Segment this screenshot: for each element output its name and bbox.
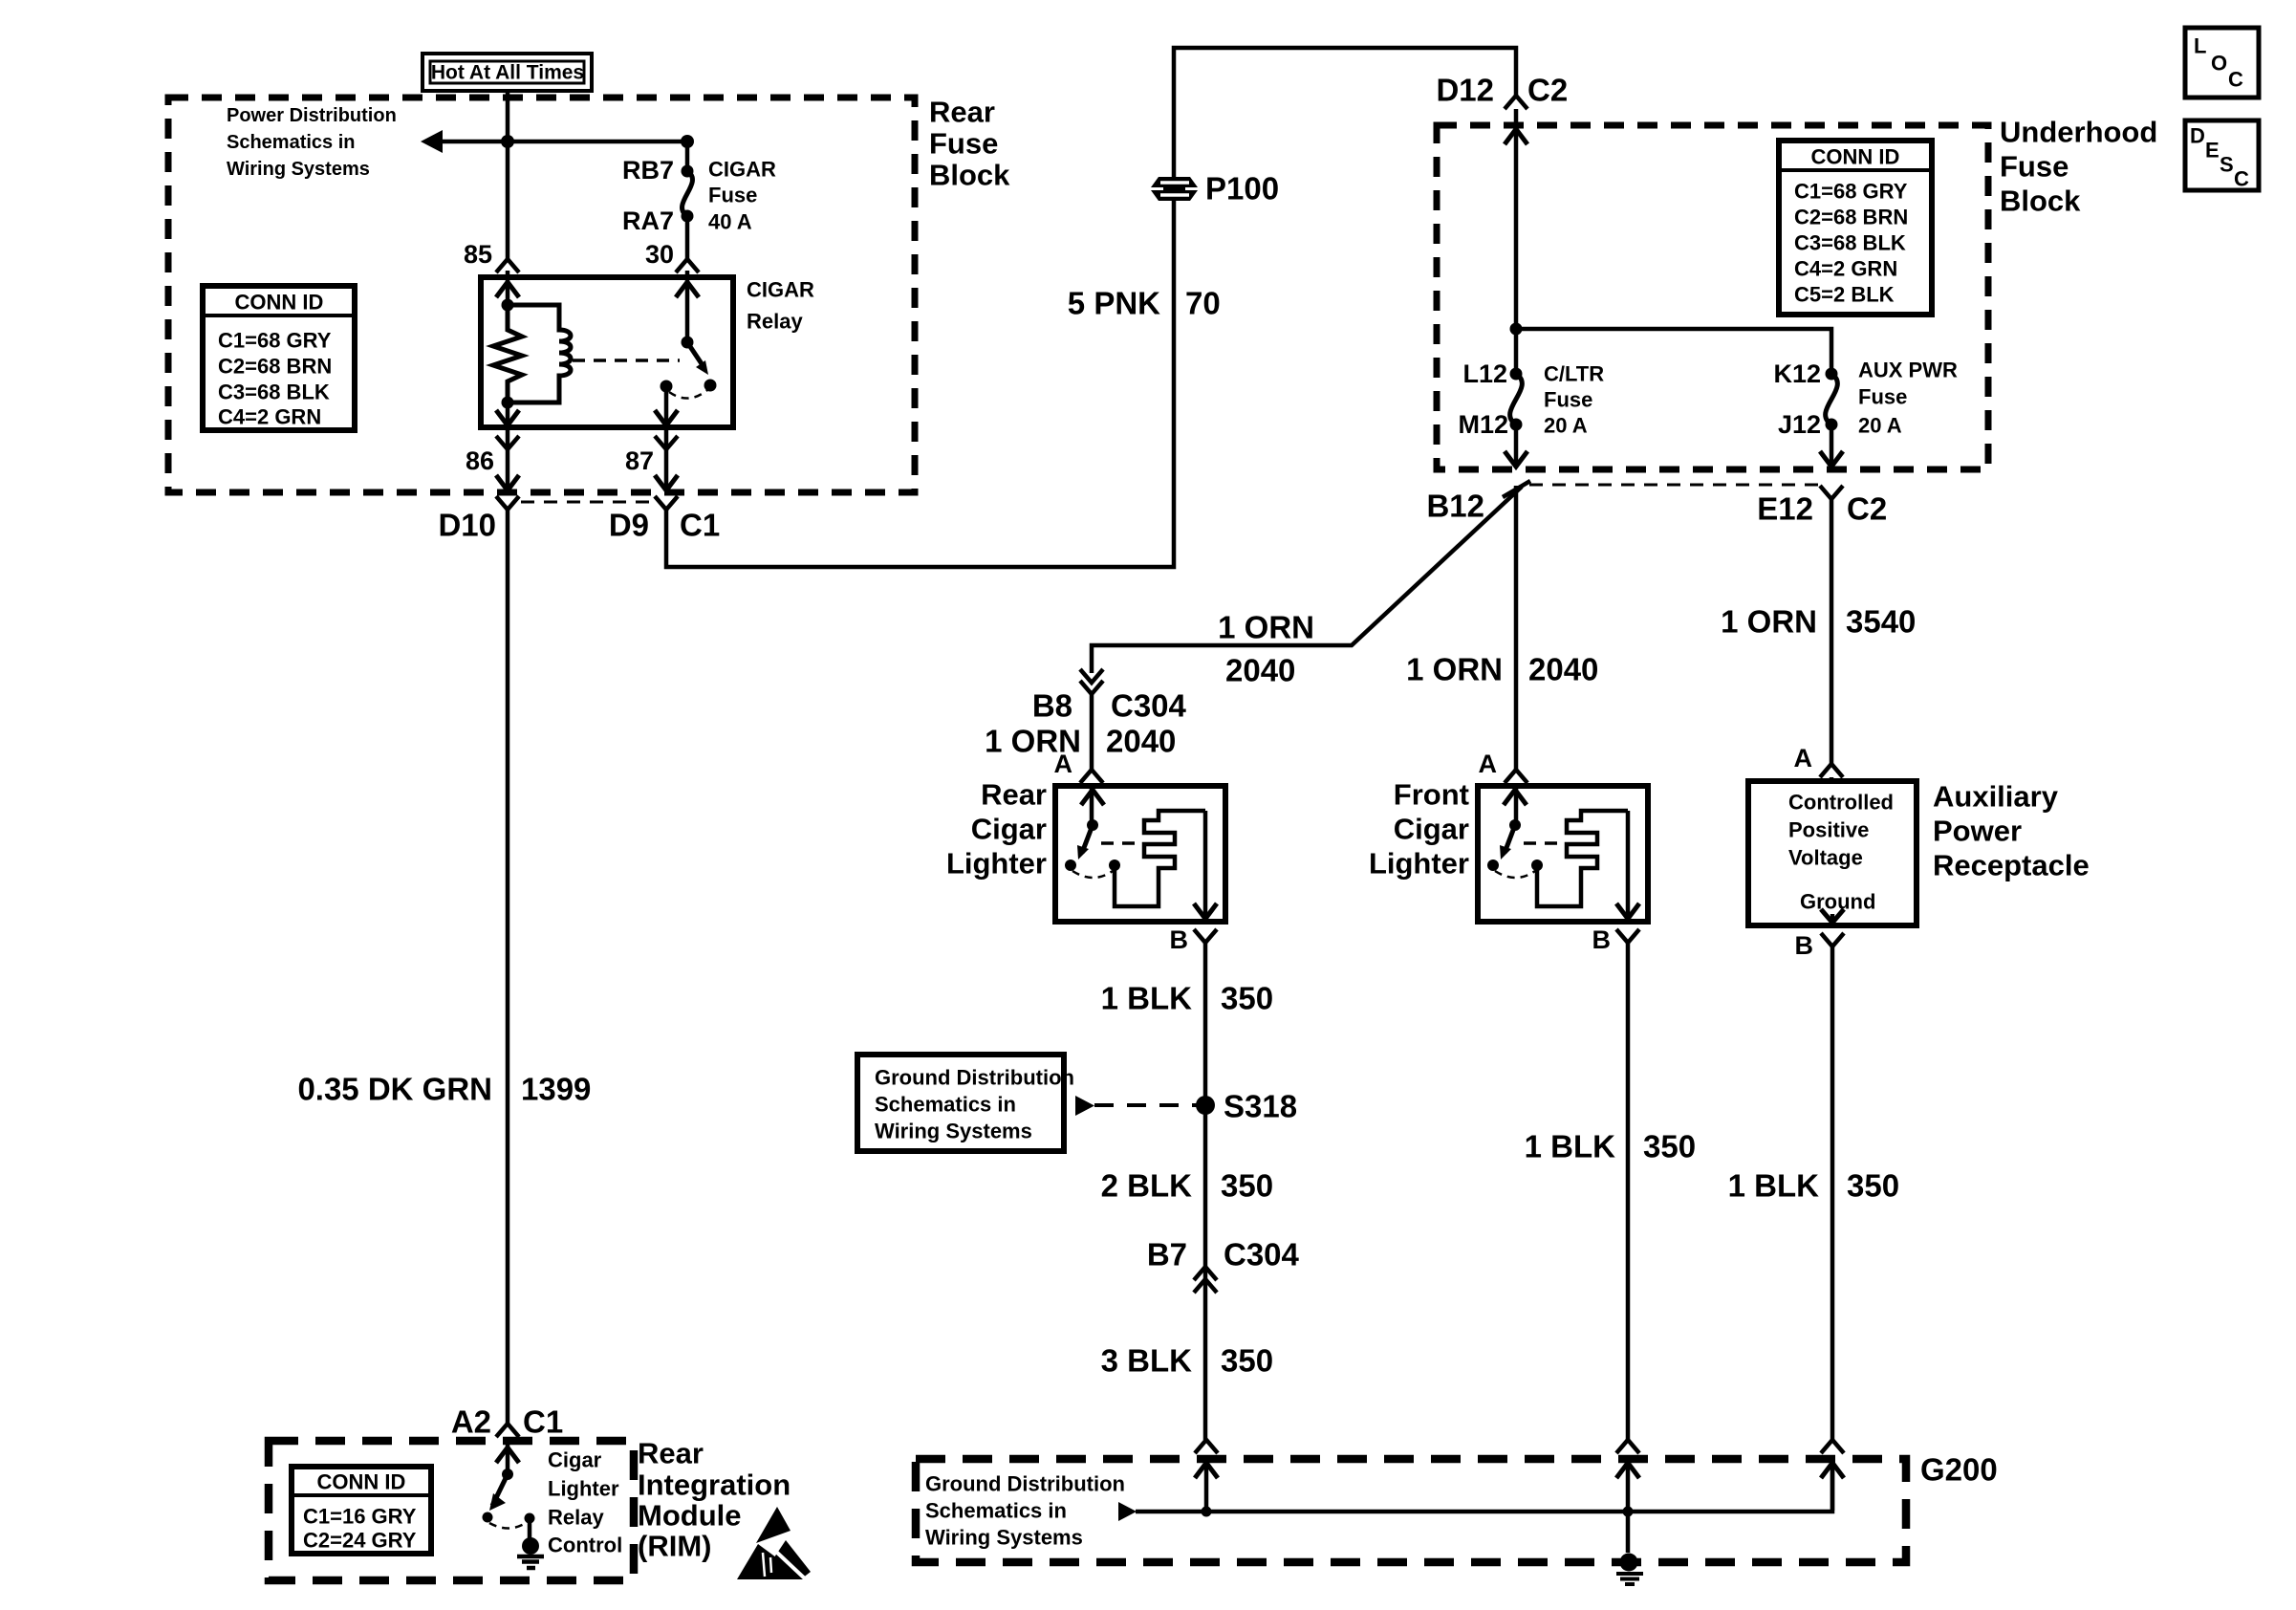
svg-text:K12: K12 <box>1773 359 1821 388</box>
svg-text:Schematics in: Schematics in <box>925 1499 1067 1523</box>
fuse AUX PWR 20A element <box>1826 374 1838 424</box>
svg-text:Ground: Ground <box>1800 890 1875 914</box>
svg-text:D12: D12 <box>1436 73 1494 108</box>
dashed link to S318 <box>1094 1103 1197 1107</box>
wire fuse feed <box>685 141 690 171</box>
arrowhead front element down <box>1616 903 1639 919</box>
svg-text:P100: P100 <box>1205 171 1279 207</box>
ground hatch G200 <box>1616 1572 1643 1576</box>
svg-text:C1=68 GRY: C1=68 GRY <box>218 329 332 353</box>
actuator dashed link rear <box>1101 841 1141 845</box>
svg-text:CIGAR: CIGAR <box>747 278 814 302</box>
wire B12 diagonal to rear feed <box>1092 487 1522 673</box>
arrowhead rear lighter feed up <box>1081 790 1104 805</box>
pointer triangle S318 <box>1075 1096 1094 1116</box>
svg-text:A: A <box>1479 750 1498 778</box>
svg-text:Relay: Relay <box>747 310 803 334</box>
node junction hot/branch <box>501 135 514 148</box>
node fuse feed corner <box>681 135 694 148</box>
svg-text:Module: Module <box>638 1499 742 1533</box>
wire split to K12 <box>1516 329 1831 374</box>
wire M12 to border <box>1514 424 1519 467</box>
arrowhead aux ground down <box>1821 909 1844 923</box>
relay actuator dashed link <box>573 359 680 362</box>
arrowhead M12 down <box>1505 451 1527 467</box>
resistor relay <box>493 305 522 402</box>
svg-text:C5=2 BLK: C5=2 BLK <box>1794 283 1895 307</box>
svg-text:3540: 3540 <box>1846 604 1916 640</box>
wire E12 to aux receptacle <box>1830 499 1834 764</box>
ground ball G200 <box>1620 1554 1638 1572</box>
svg-text:2040: 2040 <box>1225 653 1295 688</box>
wire pin30 into relay <box>685 271 690 342</box>
connector chevron D9 <box>655 496 678 510</box>
svg-text:E12: E12 <box>1757 491 1813 527</box>
svg-text:Hot At All Times: Hot At All Times <box>431 62 584 84</box>
rear cigar lighter box <box>1055 786 1225 922</box>
svg-text:C4=2 GRN: C4=2 GRN <box>1794 257 1897 281</box>
connector chevron 86 <box>496 436 519 449</box>
wire D10 long run down <box>506 510 510 1424</box>
svg-text:Fuse: Fuse <box>1858 385 1907 409</box>
svg-text:CONN ID: CONN ID <box>235 291 324 315</box>
connector chevron rear at G200 <box>1195 1440 1218 1453</box>
coil relay winding <box>508 305 571 402</box>
node J12 <box>1826 419 1838 431</box>
svg-text:2040: 2040 <box>1106 724 1176 759</box>
node front lighter stationary <box>1487 859 1499 871</box>
svg-text:L12: L12 <box>1462 359 1507 388</box>
svg-text:2 BLK: 2 BLK <box>1101 1168 1193 1204</box>
svg-text:C1: C1 <box>523 1404 563 1440</box>
arrowhead rim feed up <box>496 1447 519 1463</box>
svg-text:Ground Distribution: Ground Distribution <box>875 1066 1074 1090</box>
svg-text:B8: B8 <box>1032 688 1072 724</box>
wire fuse to pin30 <box>685 216 690 259</box>
connector C1 dashed face line <box>521 501 653 504</box>
connector chevron B front <box>1616 929 1639 943</box>
svg-text:350: 350 <box>1221 1343 1273 1379</box>
fuse CIGAR 40A element <box>682 171 693 216</box>
switch arm arrowhead rim <box>489 1493 506 1511</box>
svg-text:1 ORN: 1 ORN <box>1721 604 1817 640</box>
svg-text:C: C <box>2228 68 2243 92</box>
connector chevron front at G200 <box>1616 1440 1639 1453</box>
svg-text:Lighter: Lighter <box>548 1477 619 1501</box>
node M12 <box>1510 419 1523 431</box>
node front lighter element in <box>1531 859 1543 871</box>
wire A into aux box <box>1830 777 1834 784</box>
svg-text:1 BLK: 1 BLK <box>1101 981 1193 1016</box>
svg-text:S318: S318 <box>1224 1089 1297 1124</box>
wire A2 into rim <box>506 1437 510 1474</box>
CONN ID table rim <box>292 1467 431 1554</box>
DESC legend box <box>2185 120 2259 191</box>
node rim switch pivot <box>502 1469 513 1480</box>
node feed split <box>1510 323 1523 336</box>
svg-text:350: 350 <box>1221 1168 1273 1204</box>
connector chevron 87 <box>655 436 678 449</box>
arrowhead switch feed up <box>676 282 699 297</box>
node moving contact <box>704 380 717 392</box>
connector C304 double chevron down <box>1080 669 1103 683</box>
svg-text:A: A <box>1794 744 1813 772</box>
svg-text:L: L <box>2194 34 2206 58</box>
svg-text:Fuse: Fuse <box>708 184 757 207</box>
rear fuse block dashed enclosure <box>168 98 915 492</box>
front cigar lighter box <box>1478 786 1648 922</box>
svg-text:20 A: 20 A <box>1858 414 1902 438</box>
svg-text:85: 85 <box>464 240 492 269</box>
arrowhead front G200 up <box>1616 1463 1639 1478</box>
svg-text:S: S <box>2220 153 2234 177</box>
svg-text:1 BLK: 1 BLK <box>1728 1168 1820 1204</box>
node rear lighter element in <box>1109 859 1120 871</box>
arrowhead aux G200 up <box>1821 1463 1844 1478</box>
svg-text:C2: C2 <box>1847 491 1887 527</box>
wire aux B down <box>1830 946 1835 1440</box>
svg-text:C2: C2 <box>1527 73 1568 108</box>
svg-text:Fuse: Fuse <box>1544 388 1592 412</box>
svg-text:350: 350 <box>1847 1168 1899 1204</box>
node stationary contact 87 <box>661 381 673 393</box>
arrowhead coil feed up <box>496 282 519 297</box>
ground distribution callout box <box>857 1055 1064 1151</box>
svg-text:B12: B12 <box>1426 489 1484 524</box>
node front lighter pivot <box>1509 819 1521 831</box>
node rear lighter pivot <box>1087 819 1098 831</box>
svg-text:Ground Distribution: Ground Distribution <box>925 1472 1125 1496</box>
arrowhead 87 down <box>655 410 678 425</box>
svg-text:G200: G200 <box>1920 1452 1998 1488</box>
svg-text:C2=68 BRN: C2=68 BRN <box>218 355 332 379</box>
actuator dashed link front <box>1524 841 1564 845</box>
arrowhead front lighter feed up <box>1504 790 1527 805</box>
connector chevron A front lighter <box>1505 770 1527 783</box>
wire A into rear lighter <box>1090 783 1094 825</box>
wire 87 down <box>664 386 669 424</box>
svg-text:E: E <box>2205 139 2220 163</box>
wire coil to pin86 <box>506 402 510 424</box>
svg-text:86: 86 <box>466 446 494 475</box>
wire rear lighter B down <box>1203 943 1208 1440</box>
svg-text:RB7: RB7 <box>622 156 674 185</box>
wire B8 to rear lighter <box>1090 694 1094 770</box>
node coil bottom <box>502 397 514 409</box>
ground hatch rim <box>517 1555 544 1559</box>
svg-text:C2=68 BRN: C2=68 BRN <box>1794 206 1908 229</box>
wire pin85 into relay <box>506 271 510 305</box>
switch arm arrowhead front <box>1500 845 1511 859</box>
svg-text:C1=68 GRY: C1=68 GRY <box>1794 180 1908 204</box>
connector chevron A2/C1 <box>496 1424 519 1437</box>
wire contact to ground ball <box>528 1518 532 1539</box>
CONN ID table underhood <box>1779 141 1932 315</box>
svg-text:Power: Power <box>1933 815 2022 848</box>
svg-text:1 ORN: 1 ORN <box>1406 652 1503 687</box>
connector chevron aux at G200 <box>1821 1440 1844 1453</box>
switch throw dashed arc <box>669 390 707 399</box>
wire 1 ORN front feed <box>1514 486 1519 770</box>
svg-text:Schematics in: Schematics in <box>875 1093 1016 1117</box>
svg-text:CONN ID: CONN ID <box>1811 145 1900 169</box>
pointer triangle G200 <box>1118 1502 1137 1521</box>
wire hot feed vertical 85 <box>506 91 510 259</box>
svg-text:A2: A2 <box>451 1404 491 1440</box>
connector chevron A rear lighter <box>1080 770 1103 783</box>
svg-text:Wiring Systems: Wiring Systems <box>925 1526 1083 1550</box>
svg-text:Fuse: Fuse <box>929 127 998 161</box>
ground ball rim <box>522 1537 539 1555</box>
svg-text:C4=2 GRN: C4=2 GRN <box>218 405 321 429</box>
switch arm front lighter <box>1505 825 1515 853</box>
svg-text:30: 30 <box>645 240 674 269</box>
svg-text:AUX PWR: AUX PWR <box>1858 359 1958 382</box>
connector chevron A aux <box>1820 764 1843 777</box>
wire aux into bus <box>1830 1463 1835 1511</box>
svg-text:Control: Control <box>548 1534 622 1557</box>
arrowhead rear G200 up <box>1195 1463 1218 1478</box>
svg-text:Front: Front <box>1394 778 1469 812</box>
svg-text:Power Distribution: Power Distribution <box>227 105 397 126</box>
svg-text:D10: D10 <box>438 508 496 543</box>
connector chevron pin 30 <box>676 259 699 272</box>
connector C2 dashed face line bottom <box>1529 484 1820 487</box>
svg-text:B: B <box>1592 925 1612 954</box>
wire A into front lighter <box>1514 783 1519 825</box>
wire front into bus <box>1626 1463 1631 1511</box>
svg-text:70: 70 <box>1185 286 1221 321</box>
heating element front <box>1537 811 1628 906</box>
wire 87 below relay <box>664 427 669 490</box>
switch arm relay <box>687 342 703 365</box>
wire front lighter B down <box>1626 943 1631 1440</box>
node RB7 <box>682 165 694 178</box>
svg-text:2040: 2040 <box>1528 652 1598 687</box>
switch arm rear lighter <box>1082 825 1093 853</box>
svg-text:Block: Block <box>2000 185 2081 218</box>
svg-text:O: O <box>2211 52 2227 76</box>
svg-text:B: B <box>1795 931 1814 960</box>
arrow to power distribution <box>421 130 443 153</box>
svg-text:1399: 1399 <box>521 1072 591 1107</box>
switch arm arrowhead rear <box>1077 845 1089 859</box>
svg-text:(RIM): (RIM) <box>638 1530 711 1563</box>
arrowhead J12 down <box>1820 451 1843 467</box>
relay CIGAR box <box>481 277 733 427</box>
connector chevron B rear <box>1194 929 1217 943</box>
svg-text:A: A <box>1054 750 1073 778</box>
svg-text:Cigar: Cigar <box>971 813 1047 846</box>
node rim relay drive contact <box>525 1513 535 1524</box>
node rear lighter stationary <box>1065 859 1076 871</box>
svg-text:B7: B7 <box>1147 1237 1187 1273</box>
svg-text:D9: D9 <box>609 508 649 543</box>
node K12 <box>1826 368 1838 381</box>
svg-text:D: D <box>2190 124 2205 148</box>
svg-text:Rear: Rear <box>929 96 995 129</box>
svg-text:5 PNK: 5 PNK <box>1068 286 1160 321</box>
svg-text:Rear: Rear <box>981 778 1047 812</box>
arrowhead coil out down <box>496 410 519 425</box>
ground bus wire <box>1136 1463 1832 1512</box>
arrowhead D12 feed up <box>1505 129 1527 144</box>
wire rear element out <box>1203 811 1208 919</box>
svg-text:Relay: Relay <box>548 1506 604 1530</box>
CONN ID table rear fuse block <box>203 286 355 430</box>
wire D12 into block <box>1514 109 1519 374</box>
svg-text:40 A: 40 A <box>708 210 752 234</box>
svg-text:Cigar: Cigar <box>1394 813 1469 846</box>
svg-text:Rear: Rear <box>638 1437 704 1470</box>
node L12 <box>1510 368 1523 381</box>
connector chevron D10 <box>496 496 519 510</box>
svg-text:Integration: Integration <box>638 1469 791 1502</box>
svg-text:C3=68 BLK: C3=68 BLK <box>1794 231 1906 255</box>
svg-text:1 BLK: 1 BLK <box>1525 1129 1616 1164</box>
connector chevron B12 slanted <box>1503 481 1530 497</box>
node bus rear <box>1202 1507 1212 1517</box>
wire rear into bus <box>1204 1463 1209 1511</box>
switch arm rim <box>492 1474 508 1506</box>
splice S318 <box>1196 1096 1215 1115</box>
underhood fuse block dashed enclosure <box>1437 125 1988 469</box>
svg-text:Lighter: Lighter <box>946 847 1047 881</box>
LOC legend box <box>2185 28 2259 98</box>
svg-text:Controlled: Controlled <box>1788 791 1894 815</box>
svg-text:CIGAR: CIGAR <box>708 158 776 182</box>
switch arm arrowhead <box>696 360 708 375</box>
switch throw dashed arc rear <box>1072 871 1113 878</box>
node coil top <box>502 299 514 312</box>
svg-text:Schematics in: Schematics in <box>227 132 356 153</box>
svg-text:Receptacle: Receptacle <box>1933 849 2090 882</box>
wire front to ground ball <box>1626 1512 1631 1553</box>
svg-text:C2=24 GRY: C2=24 GRY <box>303 1529 417 1553</box>
grommet P100 <box>1151 177 1198 201</box>
svg-text:Voltage: Voltage <box>1788 846 1863 870</box>
connector chevron E12/C2 <box>1820 486 1843 499</box>
connector C304 double chevron up <box>1194 1267 1217 1280</box>
switch throw dashed arc rim <box>489 1523 526 1529</box>
node RA7 <box>682 210 694 223</box>
arrowhead rear element down <box>1194 903 1217 919</box>
svg-text:C: C <box>2234 167 2249 191</box>
svg-text:Wiring Systems: Wiring Systems <box>227 159 370 180</box>
Hot At All Times box <box>422 54 592 91</box>
svg-text:Wiring Systems: Wiring Systems <box>875 1120 1032 1143</box>
svg-text:Fuse: Fuse <box>2000 150 2069 184</box>
svg-text:C3=68 BLK: C3=68 BLK <box>218 381 330 404</box>
connector chevron D12/C2 <box>1505 96 1527 109</box>
svg-text:Lighter: Lighter <box>1369 847 1469 881</box>
svg-text:3 BLK: 3 BLK <box>1101 1343 1193 1379</box>
wire aux ground out <box>1830 914 1835 923</box>
svg-text:C1: C1 <box>680 508 720 543</box>
node rim stationary contact <box>483 1512 493 1523</box>
svg-text:C1=16 GRY: C1=16 GRY <box>303 1505 417 1529</box>
svg-text:CONN ID: CONN ID <box>317 1470 406 1494</box>
svg-text:Positive: Positive <box>1788 818 1869 842</box>
node bus front <box>1623 1507 1634 1517</box>
svg-text:0.35 DK GRN: 0.35 DK GRN <box>297 1072 492 1107</box>
connector chevron pin 85 <box>496 259 519 272</box>
fuse C/LTR 20A element <box>1510 374 1523 424</box>
wire branch horizontal to power distribution <box>441 140 687 144</box>
rim dashed enclosure <box>269 1441 634 1580</box>
svg-text:M12: M12 <box>1458 410 1508 439</box>
svg-text:350: 350 <box>1643 1129 1696 1164</box>
ESD sensitive symbol <box>756 1507 791 1543</box>
switch throw dashed arc front <box>1495 871 1535 878</box>
svg-text:87: 87 <box>625 446 654 475</box>
arrowhead 87 at border <box>655 475 678 490</box>
svg-text:C/LTR: C/LTR <box>1544 362 1604 386</box>
wire D9 to P100 run <box>666 48 1516 567</box>
svg-text:B: B <box>1170 925 1189 954</box>
svg-text:J12: J12 <box>1778 410 1821 439</box>
svg-text:1 ORN: 1 ORN <box>1218 610 1314 645</box>
svg-text:Auxiliary: Auxiliary <box>1933 780 2059 814</box>
wire 86 below relay <box>506 427 510 490</box>
connector chevron B aux <box>1821 933 1844 946</box>
svg-text:Underhood: Underhood <box>2000 116 2157 149</box>
svg-text:Block: Block <box>929 159 1010 192</box>
G200 dashed enclosure <box>916 1459 1906 1562</box>
svg-text:C304: C304 <box>1111 688 1187 724</box>
svg-text:Cigar: Cigar <box>548 1448 602 1472</box>
heating element rear <box>1115 811 1205 906</box>
auxiliary power receptacle box <box>1748 781 1917 925</box>
node switch pivot <box>682 337 694 349</box>
wire front element out <box>1626 811 1631 919</box>
svg-text:350: 350 <box>1221 981 1273 1016</box>
wire J12 to border <box>1830 424 1834 467</box>
svg-text:20 A: 20 A <box>1544 414 1588 438</box>
svg-text:RA7: RA7 <box>622 207 674 235</box>
arrowhead 86 at border <box>496 475 519 490</box>
svg-text:C304: C304 <box>1224 1237 1300 1273</box>
